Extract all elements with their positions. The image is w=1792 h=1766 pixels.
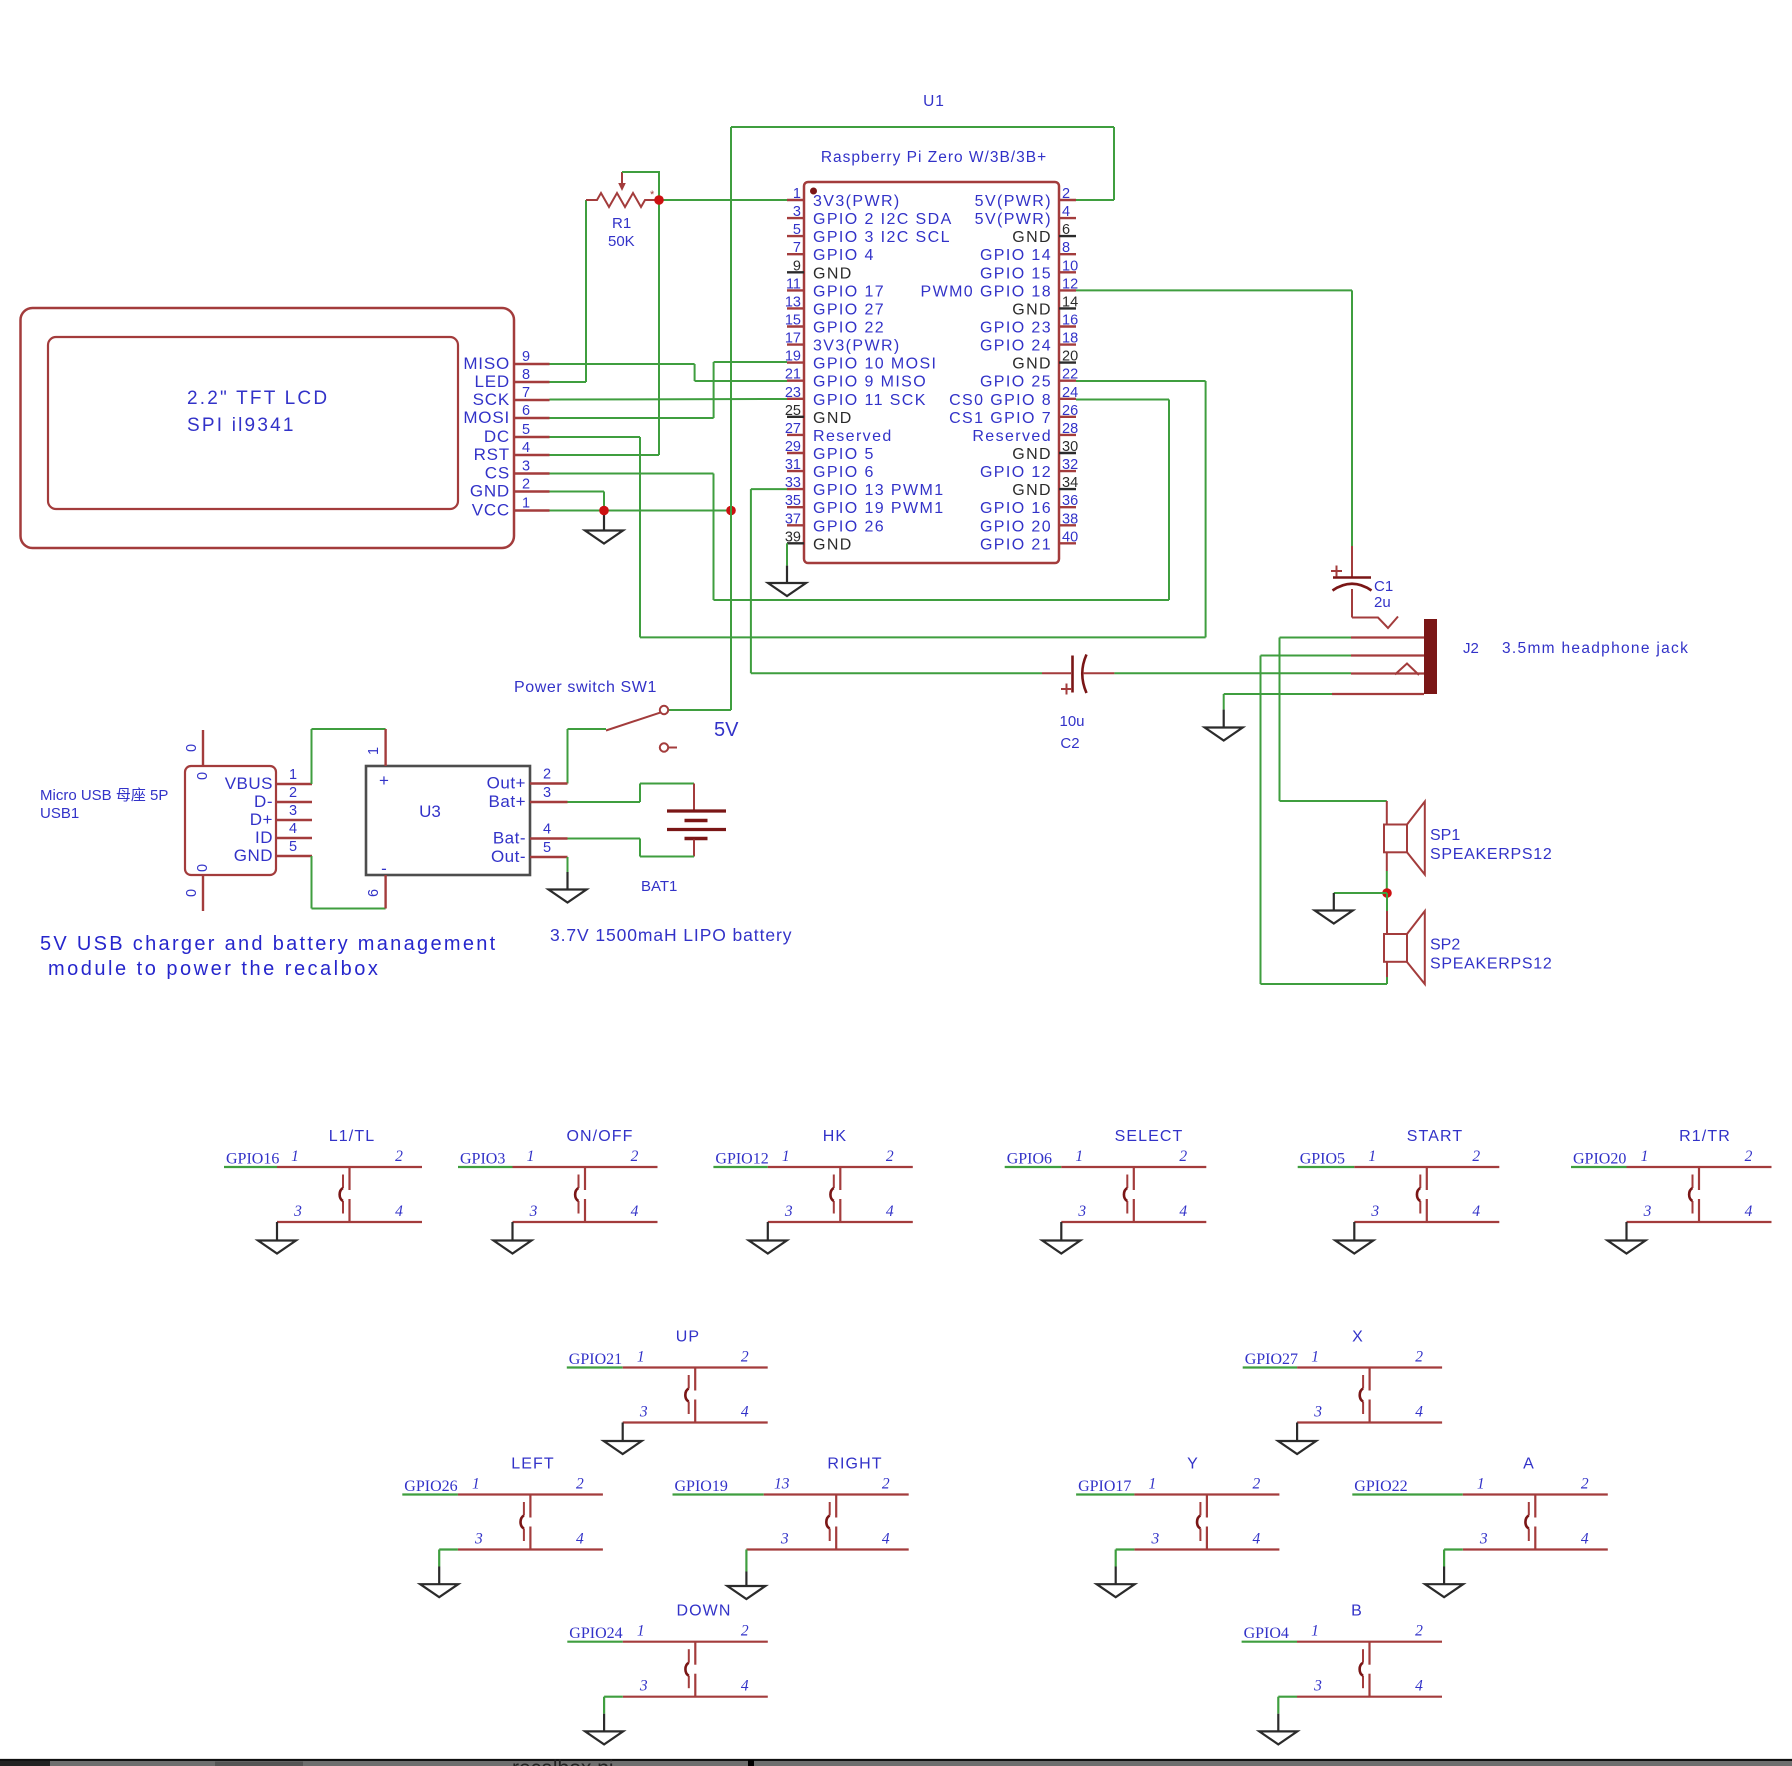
svg-text:module to power the recalbox: module to power the recalbox (48, 958, 380, 980)
svg-text:3: 3 (474, 1531, 483, 1548)
svg-text:3.7V 1500maH LIPO battery: 3.7V 1500maH LIPO battery (550, 925, 792, 945)
svg-text:3: 3 (1479, 1531, 1488, 1548)
svg-text:3: 3 (1313, 1404, 1322, 1421)
svg-text:4: 4 (1062, 204, 1070, 220)
svg-text:GPIO20: GPIO20 (1573, 1151, 1626, 1168)
svg-text:UP: UP (676, 1329, 700, 1346)
svg-text:2: 2 (576, 1476, 584, 1493)
svg-text:GPIO 23: GPIO 23 (980, 320, 1052, 337)
svg-text:SP2: SP2 (1430, 937, 1460, 954)
svg-text:GPIO3: GPIO3 (460, 1151, 505, 1168)
svg-text:GPIO 11 SCK: GPIO 11 SCK (813, 392, 927, 409)
svg-text:C1: C1 (1374, 578, 1393, 595)
svg-text:GPIO 2 I2C SDA: GPIO 2 I2C SDA (813, 211, 953, 228)
svg-text:36: 36 (1062, 493, 1078, 509)
svg-text:GPIO 13 PWM1: GPIO 13 PWM1 (813, 482, 945, 499)
svg-text:3: 3 (1643, 1203, 1652, 1220)
svg-text:5: 5 (793, 222, 801, 238)
svg-text:5V USB charger and battery man: 5V USB charger and battery management (40, 933, 498, 955)
svg-text:2: 2 (741, 1623, 749, 1640)
svg-text:29: 29 (785, 439, 801, 455)
svg-text:+: + (379, 771, 389, 790)
svg-text:Reserved: Reserved (972, 428, 1052, 445)
svg-text:GPIO4: GPIO4 (1244, 1625, 1289, 1642)
svg-text:19: 19 (785, 349, 801, 365)
svg-text:32: 32 (1062, 457, 1078, 473)
svg-text:3: 3 (522, 459, 530, 475)
svg-text:2: 2 (1415, 1349, 1423, 1366)
svg-text:Out+: Out+ (487, 774, 526, 793)
svg-text:4: 4 (882, 1531, 890, 1548)
svg-text:GPIO 4: GPIO 4 (813, 247, 875, 264)
svg-text:8: 8 (522, 367, 530, 383)
svg-text:4: 4 (1415, 1678, 1423, 1695)
svg-text:VBUS: VBUS (225, 774, 273, 793)
svg-text:5: 5 (522, 422, 530, 438)
svg-text:GPIO19: GPIO19 (675, 1478, 728, 1495)
svg-text:3: 3 (543, 785, 551, 801)
svg-text:R1/TR: R1/TR (1679, 1128, 1731, 1145)
svg-text:2: 2 (1253, 1476, 1261, 1493)
svg-text:50K: 50K (608, 233, 635, 250)
svg-text:CS: CS (485, 464, 510, 483)
svg-text:LEFT: LEFT (511, 1456, 555, 1473)
svg-text:9: 9 (793, 258, 801, 274)
svg-text:2: 2 (522, 477, 530, 493)
svg-text:2: 2 (1581, 1476, 1589, 1493)
svg-text:4: 4 (1253, 1531, 1261, 1548)
svg-text:4: 4 (522, 440, 530, 456)
svg-text:SPEAKERPS12: SPEAKERPS12 (1430, 956, 1552, 973)
svg-text:GPIO 3 I2C SCL: GPIO 3 I2C SCL (813, 229, 951, 246)
svg-text:3: 3 (289, 803, 297, 819)
svg-text:3: 3 (1370, 1203, 1379, 1220)
svg-text:34: 34 (1062, 475, 1078, 491)
svg-text:GPIO 12: GPIO 12 (980, 464, 1052, 481)
svg-text:GPIO26: GPIO26 (404, 1478, 457, 1495)
svg-text:Micro USB 母座 5P: Micro USB 母座 5P (40, 787, 168, 804)
svg-text:SP1: SP1 (1430, 827, 1460, 844)
svg-text:GPIO 6: GPIO 6 (813, 464, 875, 481)
svg-text:4: 4 (576, 1531, 584, 1548)
svg-text:10: 10 (1062, 258, 1078, 274)
svg-text:recalbox pi: recalbox pi (512, 1757, 614, 1766)
svg-text:1: 1 (472, 1476, 480, 1493)
svg-text:1: 1 (527, 1148, 535, 1165)
svg-text:GPIO 25: GPIO 25 (980, 374, 1052, 391)
svg-text:Y: Y (1187, 1456, 1199, 1473)
svg-text:Bat-: Bat- (493, 829, 526, 848)
svg-text:25: 25 (785, 403, 801, 419)
svg-text:4: 4 (741, 1678, 749, 1695)
svg-text:GPIO 14: GPIO 14 (980, 247, 1052, 264)
svg-text:15: 15 (785, 313, 801, 329)
svg-text:USB1: USB1 (40, 805, 79, 822)
svg-text:GPIO24: GPIO24 (569, 1625, 622, 1642)
svg-text:GPIO16: GPIO16 (226, 1151, 279, 1168)
svg-text:GPIO21: GPIO21 (569, 1351, 622, 1368)
svg-text:3V3(PWR): 3V3(PWR) (813, 193, 901, 210)
svg-text:9: 9 (522, 349, 530, 365)
svg-text:38: 38 (1062, 511, 1078, 527)
svg-text:0: 0 (184, 744, 200, 752)
svg-text:GPIO27: GPIO27 (1245, 1351, 1298, 1368)
svg-text:2: 2 (289, 785, 297, 801)
svg-text:1: 1 (637, 1349, 645, 1366)
svg-text:2: 2 (1472, 1148, 1480, 1165)
svg-text:Power switch SW1: Power switch SW1 (514, 679, 657, 696)
svg-text:1: 1 (1477, 1476, 1485, 1493)
svg-text:ON/OFF: ON/OFF (566, 1128, 633, 1145)
svg-text:GND: GND (1012, 356, 1052, 373)
svg-text:5: 5 (543, 840, 551, 856)
svg-text:3: 3 (780, 1531, 789, 1548)
svg-text:5V: 5V (714, 719, 739, 741)
svg-text:3: 3 (784, 1203, 793, 1220)
svg-text:20: 20 (1062, 349, 1078, 365)
svg-text:CS0 GPIO 8: CS0 GPIO 8 (949, 392, 1052, 409)
svg-text:MISO: MISO (463, 354, 510, 373)
svg-text:2: 2 (1415, 1623, 1423, 1640)
svg-text:GPIO 27: GPIO 27 (813, 301, 885, 318)
svg-text:4: 4 (1179, 1203, 1187, 1220)
svg-text:3: 3 (639, 1404, 648, 1421)
svg-text:5V(PWR): 5V(PWR) (975, 193, 1052, 210)
svg-text:2: 2 (1062, 186, 1070, 202)
svg-text:GPIO 20: GPIO 20 (980, 518, 1052, 535)
svg-text:22: 22 (1062, 367, 1078, 383)
svg-text:4: 4 (289, 821, 297, 837)
svg-text:6: 6 (1062, 222, 1070, 238)
svg-text:GND: GND (813, 265, 853, 282)
svg-text:GPIO22: GPIO22 (1354, 1478, 1407, 1495)
svg-text:5: 5 (289, 839, 297, 855)
svg-text:13: 13 (785, 294, 801, 310)
svg-text:4: 4 (395, 1203, 403, 1220)
svg-text:GPIO 22: GPIO 22 (813, 320, 885, 337)
svg-text:HK: HK (823, 1128, 847, 1145)
svg-text:1: 1 (793, 186, 801, 202)
svg-text:SELECT: SELECT (1115, 1128, 1184, 1145)
svg-text:10u: 10u (1059, 713, 1084, 730)
svg-text:GPIO 21: GPIO 21 (980, 536, 1052, 553)
svg-text:GPIO 24: GPIO 24 (980, 338, 1052, 355)
svg-text:D-: D- (254, 792, 273, 811)
svg-text:5V(PWR): 5V(PWR) (975, 211, 1052, 228)
svg-text:1: 1 (637, 1623, 645, 1640)
svg-text:GND: GND (1012, 301, 1052, 318)
svg-text:GPIO 17: GPIO 17 (813, 283, 885, 300)
svg-text:U3: U3 (419, 802, 441, 821)
svg-text:GPIO 9 MISO: GPIO 9 MISO (813, 374, 927, 391)
svg-text:R1: R1 (612, 215, 631, 232)
svg-text:GPIO5: GPIO5 (1300, 1151, 1345, 1168)
svg-text:31: 31 (785, 457, 801, 473)
svg-text:Reserved: Reserved (813, 428, 893, 445)
svg-text:Out-: Out- (491, 847, 526, 866)
svg-text:CS1 GPIO 7: CS1 GPIO 7 (949, 410, 1052, 427)
svg-text:1: 1 (1075, 1148, 1083, 1165)
svg-text:GPIO 5: GPIO 5 (813, 446, 875, 463)
svg-text:6: 6 (522, 403, 530, 419)
svg-text:GPIO 16: GPIO 16 (980, 500, 1052, 517)
svg-text:1: 1 (1149, 1476, 1157, 1493)
svg-text:BAT1: BAT1 (641, 878, 677, 895)
svg-text:1: 1 (1641, 1148, 1649, 1165)
svg-text:U1: U1 (923, 93, 945, 110)
svg-text:27: 27 (785, 421, 801, 437)
svg-text:0: 0 (184, 889, 200, 897)
svg-text:0: 0 (195, 864, 211, 872)
svg-text:24: 24 (1062, 385, 1078, 401)
svg-text:GND: GND (1012, 482, 1052, 499)
svg-text:7: 7 (793, 240, 801, 256)
svg-text:4: 4 (1415, 1404, 1423, 1421)
svg-text:7: 7 (522, 385, 530, 401)
svg-text:1: 1 (1311, 1623, 1319, 1640)
svg-text:4: 4 (1472, 1203, 1480, 1220)
svg-text:2: 2 (882, 1476, 890, 1493)
svg-text:GND: GND (1012, 229, 1052, 246)
svg-text:28: 28 (1062, 421, 1078, 437)
svg-text:3: 3 (639, 1678, 648, 1695)
svg-text:11: 11 (786, 276, 801, 292)
svg-text:37: 37 (785, 511, 801, 527)
svg-text:4: 4 (886, 1203, 894, 1220)
svg-text:SCK: SCK (473, 390, 510, 409)
svg-text:1: 1 (366, 747, 382, 755)
svg-text:ID: ID (255, 828, 273, 847)
svg-text:2: 2 (1179, 1148, 1187, 1165)
svg-text:Bat+: Bat+ (489, 792, 526, 811)
svg-text:3: 3 (1151, 1531, 1160, 1548)
svg-text:1: 1 (1368, 1148, 1376, 1165)
svg-text:40: 40 (1062, 529, 1078, 545)
svg-text:4: 4 (741, 1404, 749, 1421)
svg-text:1: 1 (289, 767, 297, 783)
svg-text:33: 33 (785, 475, 801, 491)
svg-text:3: 3 (529, 1203, 538, 1220)
svg-text:GPIO 19 PWM1: GPIO 19 PWM1 (813, 500, 945, 517)
svg-text:4: 4 (631, 1203, 639, 1220)
svg-text:2: 2 (631, 1148, 639, 1165)
svg-text:3.5mm headphone jack: 3.5mm headphone jack (1502, 640, 1689, 657)
svg-text:GPIO 15: GPIO 15 (980, 265, 1052, 282)
svg-text:35: 35 (785, 493, 801, 509)
svg-text:1: 1 (1311, 1349, 1319, 1366)
svg-text:3: 3 (293, 1203, 302, 1220)
svg-text:1: 1 (782, 1148, 790, 1165)
svg-text:3: 3 (1077, 1203, 1086, 1220)
svg-text:DC: DC (484, 427, 510, 446)
svg-text:12: 12 (1062, 276, 1078, 292)
svg-text:1: 1 (291, 1148, 299, 1165)
svg-text:START: START (1407, 1128, 1463, 1145)
svg-text:18: 18 (1062, 331, 1078, 347)
svg-text:Raspberry Pi Zero W/3B/3B+: Raspberry Pi Zero W/3B/3B+ (821, 149, 1047, 166)
svg-text:*: * (650, 189, 655, 201)
svg-text:2: 2 (543, 767, 551, 783)
svg-text:RST: RST (474, 445, 510, 464)
svg-text:23: 23 (785, 385, 801, 401)
svg-text:21: 21 (785, 367, 801, 383)
svg-text:GPIO12: GPIO12 (715, 1151, 768, 1168)
svg-text:2: 2 (741, 1349, 749, 1366)
svg-text:J2: J2 (1463, 640, 1479, 657)
svg-text:16: 16 (1062, 313, 1078, 329)
svg-text:2: 2 (1745, 1148, 1753, 1165)
svg-text:GND: GND (234, 846, 273, 865)
svg-text:2.2" TFT LCD: 2.2" TFT LCD (187, 388, 329, 409)
svg-text:DOWN: DOWN (676, 1603, 731, 1620)
svg-text:SPEAKERPS12: SPEAKERPS12 (1430, 846, 1552, 863)
svg-text:30: 30 (1062, 439, 1078, 455)
svg-text:A: A (1523, 1456, 1535, 1473)
svg-text:GND: GND (813, 536, 853, 553)
svg-text:4: 4 (543, 822, 551, 838)
svg-text:GPIO17: GPIO17 (1078, 1478, 1131, 1495)
svg-text:GPIO 26: GPIO 26 (813, 518, 885, 535)
svg-text:LED: LED (475, 372, 510, 391)
svg-text:GPIO6: GPIO6 (1007, 1151, 1052, 1168)
svg-text:SPI il9341: SPI il9341 (187, 415, 296, 436)
svg-text:GND: GND (470, 482, 510, 501)
svg-text:3: 3 (1313, 1678, 1322, 1695)
svg-text:1: 1 (522, 496, 530, 512)
svg-text:3: 3 (793, 204, 801, 220)
svg-text:2: 2 (395, 1148, 403, 1165)
svg-text:17: 17 (785, 331, 801, 347)
svg-text:PWM0 GPIO 18: PWM0 GPIO 18 (921, 283, 1053, 300)
svg-text:3V3(PWR): 3V3(PWR) (813, 338, 901, 355)
svg-text:RIGHT: RIGHT (827, 1456, 882, 1473)
svg-text:GND: GND (1012, 446, 1052, 463)
svg-text:C2: C2 (1060, 735, 1079, 752)
svg-text:6: 6 (366, 889, 382, 897)
svg-text:4: 4 (1745, 1203, 1753, 1220)
svg-text:0: 0 (195, 772, 211, 780)
svg-text:4: 4 (1581, 1531, 1589, 1548)
svg-text:L1/TL: L1/TL (329, 1128, 375, 1145)
svg-text:14: 14 (1062, 294, 1078, 310)
svg-text:X: X (1352, 1329, 1364, 1346)
svg-text:8: 8 (1062, 240, 1070, 256)
svg-text:39: 39 (785, 529, 801, 545)
svg-text:GPIO 10 MOSI: GPIO 10 MOSI (813, 356, 937, 373)
svg-text:GND: GND (813, 410, 853, 427)
svg-text:26: 26 (1062, 403, 1078, 419)
svg-text:VCC: VCC (472, 501, 510, 520)
svg-text:13: 13 (774, 1476, 790, 1493)
svg-text:D+: D+ (250, 810, 273, 829)
svg-text:2u: 2u (1374, 594, 1391, 611)
svg-text:B: B (1351, 1603, 1363, 1620)
svg-text:MOSI: MOSI (463, 408, 510, 427)
svg-text:2: 2 (886, 1148, 894, 1165)
